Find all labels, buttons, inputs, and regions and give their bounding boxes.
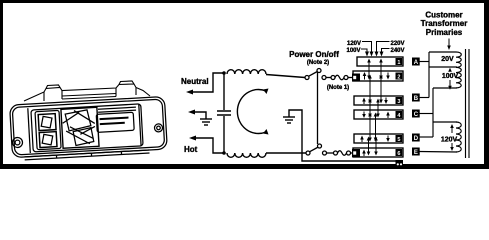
svg-text:Neutral: Neutral xyxy=(181,77,209,86)
svg-text:E: E xyxy=(414,150,418,156)
svg-text:240V: 240V xyxy=(391,48,405,54)
svg-text:100V: 100V xyxy=(442,73,459,80)
svg-text:Power On/off: Power On/off xyxy=(289,50,339,59)
svg-text:120V: 120V xyxy=(347,41,361,47)
svg-text:A: A xyxy=(414,60,419,66)
svg-text:Primaries: Primaries xyxy=(426,28,463,37)
svg-text:1: 1 xyxy=(397,60,400,66)
svg-text:(Note 1): (Note 1) xyxy=(327,85,349,91)
svg-text:(Note 2): (Note 2) xyxy=(307,60,329,66)
svg-text:5: 5 xyxy=(397,137,400,143)
svg-text:B: B xyxy=(414,96,419,102)
svg-text:Hot: Hot xyxy=(184,145,198,154)
svg-text:D: D xyxy=(414,136,419,142)
svg-text:100V: 100V xyxy=(347,48,361,54)
svg-text:3: 3 xyxy=(397,99,400,105)
svg-text:220V: 220V xyxy=(391,41,405,47)
svg-text:Customer: Customer xyxy=(425,11,462,20)
svg-text:20V: 20V xyxy=(441,56,454,63)
svg-text:C: C xyxy=(414,112,419,118)
svg-text:2: 2 xyxy=(397,74,400,80)
svg-text:120V: 120V xyxy=(441,137,458,144)
svg-text:6: 6 xyxy=(397,151,400,157)
